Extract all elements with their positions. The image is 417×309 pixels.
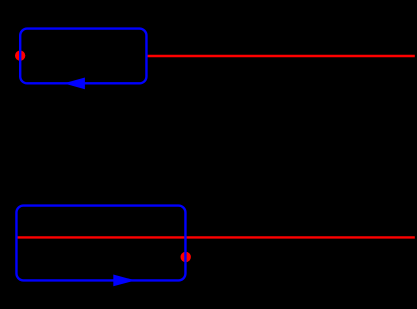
wire (red field line, bottom, crossing loop 2) xyxy=(16,236,414,238)
wire (red field line, top) xyxy=(146,55,414,57)
loop 1 (blue rounded rectangle, top) xyxy=(20,29,146,84)
node B (red dot on right side of bottom loop) xyxy=(181,252,191,262)
node A (red dot on left side of top loop) xyxy=(15,50,25,60)
arrow (current direction, pointing right on bottom of loop 2) xyxy=(113,275,135,287)
loop 2 (blue rounded rectangle, bottom) xyxy=(16,206,185,281)
arrow (current direction, pointing left on bottom of loop 1) xyxy=(64,77,85,89)
